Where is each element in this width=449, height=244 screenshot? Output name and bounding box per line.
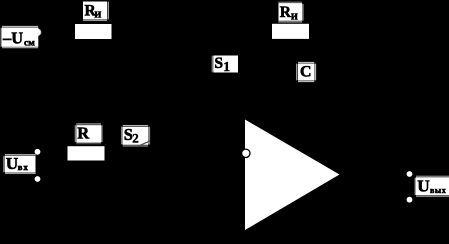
svg-text:2: 2 <box>132 131 139 146</box>
svg-text:S: S <box>214 55 223 72</box>
svg-text:и: и <box>291 8 298 22</box>
svg-text:см: см <box>24 37 35 48</box>
svg-text:C: C <box>300 64 311 81</box>
svg-text:и: и <box>94 7 101 21</box>
svg-text:1: 1 <box>223 59 230 74</box>
svg-text:вых: вых <box>430 186 446 195</box>
svg-text:–U: –U <box>2 29 23 48</box>
svg-text:U: U <box>417 177 430 196</box>
svg-text:вх: вх <box>18 162 29 172</box>
svg-text:R: R <box>77 124 90 143</box>
